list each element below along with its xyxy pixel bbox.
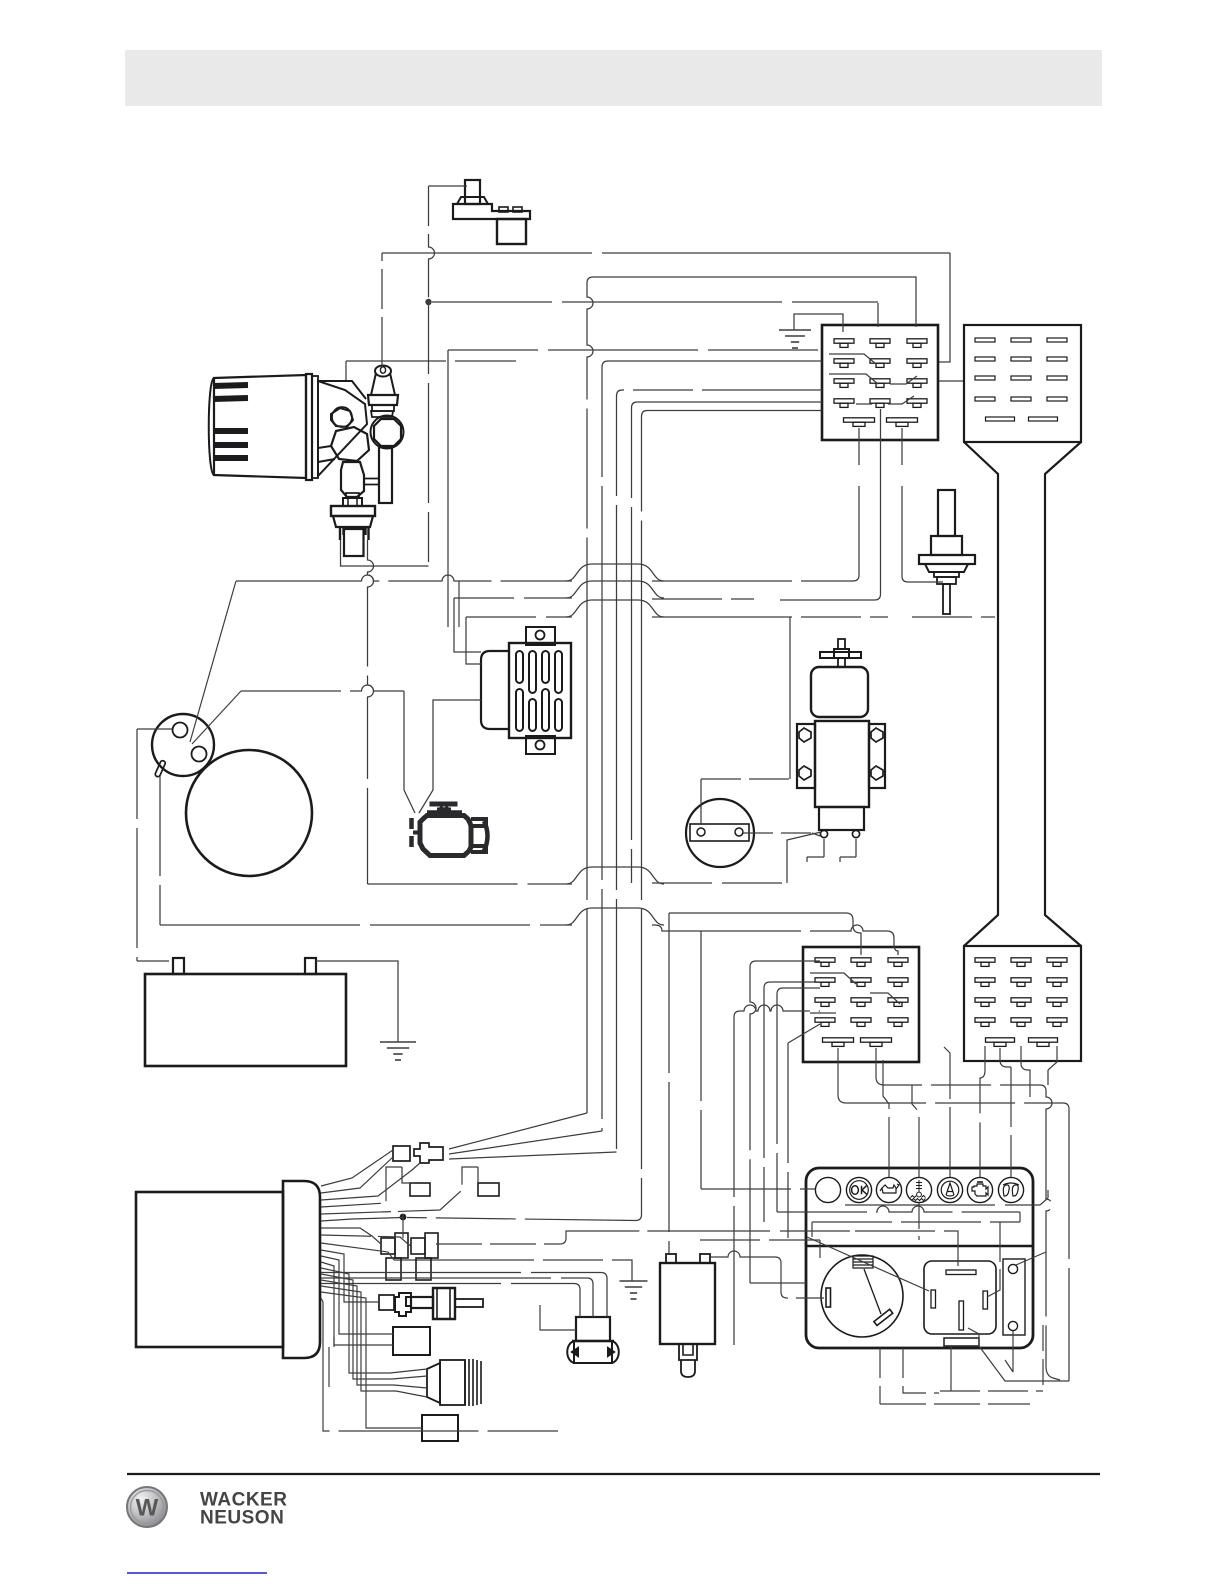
wire <box>601 367 603 560</box>
wire hour meter pin2 to solenoid <box>743 832 812 834</box>
wire <box>811 1222 813 1237</box>
wire bus y580 <box>190 581 236 742</box>
wire <box>601 560 603 1131</box>
wire <box>447 350 449 627</box>
wire <box>566 564 664 581</box>
battery <box>145 958 346 1066</box>
svg-text:W: W <box>136 1495 159 1522</box>
wire <box>783 987 820 989</box>
wire <box>734 1011 740 1017</box>
wire <box>540 1305 576 1330</box>
wire <box>652 580 853 582</box>
oil pressure switch B1 <box>453 180 530 244</box>
panel divider <box>807 1245 1032 1248</box>
wire <box>1046 1366 1060 1380</box>
wire bundle mid <box>586 560 588 1113</box>
wire <box>887 931 898 955</box>
wire block row4 col2 down <box>780 409 881 600</box>
wire filter vent to relay block <box>381 253 383 367</box>
wire <box>940 1390 1043 1392</box>
wire <box>740 1005 820 1011</box>
wire <box>776 994 778 1212</box>
wire <box>566 581 664 598</box>
harness lower wires <box>321 1250 558 1431</box>
wire <box>345 361 347 380</box>
wire <box>750 961 756 967</box>
wire <box>980 1046 985 1177</box>
wire bundle line 3 top <box>617 390 823 396</box>
wire <box>1046 1091 1052 1366</box>
wire <box>1042 1325 1044 1391</box>
harness ribbon cable <box>964 442 998 946</box>
wire y350 <box>448 349 820 351</box>
wire <box>987 1222 1000 1297</box>
wire <box>449 1113 587 1149</box>
wire <box>560 1231 700 1244</box>
fuse F2 <box>462 1167 499 1196</box>
wire <box>701 1188 815 1190</box>
key switch <box>821 1255 903 1337</box>
wire y691 alternator sense <box>192 691 241 744</box>
connector pair B <box>411 1233 438 1280</box>
wire <box>770 981 820 983</box>
connector block X2 <box>803 947 919 1062</box>
wire <box>454 597 572 599</box>
wire <box>616 560 618 1152</box>
harness connector X1 <box>964 325 1081 442</box>
wire bundle line 2 top <box>602 361 822 367</box>
wire <box>641 560 643 1215</box>
panel fuse holder <box>1003 1259 1025 1335</box>
filter vent screw <box>368 366 398 418</box>
wire <box>701 925 887 931</box>
wire <box>652 882 787 884</box>
wire <box>1048 1046 1057 1070</box>
wire <box>652 925 701 931</box>
wire <box>763 988 765 1222</box>
wire <box>652 598 754 600</box>
wire <box>1040 1190 1048 1205</box>
wire <box>777 1206 1020 1212</box>
wire bus y598 <box>454 598 481 652</box>
wire <box>1000 1048 1011 1067</box>
wire <box>631 408 633 560</box>
block to panel wires <box>756 960 820 962</box>
wire <box>587 1278 593 1317</box>
harness fan wires <box>321 1150 462 1260</box>
wire junction down to filter sensor <box>428 304 430 566</box>
wire <box>631 560 633 883</box>
wire bus y925 alternator <box>160 924 572 926</box>
small box B2 <box>422 1415 458 1441</box>
wire hour meter pin1 <box>700 779 702 825</box>
wire <box>616 396 618 560</box>
wire <box>1045 442 1081 946</box>
wire <box>968 1328 979 1346</box>
svg-text:NEUSON: NEUSON <box>200 1508 284 1529</box>
wire <box>1005 1331 1013 1372</box>
relay interface block K1 <box>822 325 938 440</box>
small box B1 <box>393 1327 430 1355</box>
fuel filter water separator <box>209 374 379 497</box>
footer rule <box>127 1473 1100 1475</box>
wire <box>137 960 169 962</box>
flasher unit <box>660 1254 715 1377</box>
battery ground G2 <box>316 961 416 1060</box>
inline connector pair <box>393 1143 443 1163</box>
wire <box>700 1230 855 1232</box>
wire <box>764 982 770 988</box>
harness connector X3 <box>964 946 1081 1061</box>
ground G1 <box>779 314 843 348</box>
wire y361 left <box>346 360 516 362</box>
alternator <box>152 714 312 876</box>
wire <box>241 685 404 691</box>
wire bundle line 5 top <box>642 411 823 417</box>
wire <box>902 428 943 582</box>
fuel shutoff solenoid <box>797 639 885 838</box>
wire <box>787 1043 789 1238</box>
wire <box>587 283 593 560</box>
fuse F1 <box>386 1167 430 1196</box>
wire <box>788 1024 820 1043</box>
wire alternator B+ down <box>159 776 161 925</box>
wire relay wide pins down <box>853 428 859 581</box>
wire <box>950 1346 952 1391</box>
wire <box>1021 1046 1030 1097</box>
wire <box>136 729 138 961</box>
filter water sensor <box>331 493 375 556</box>
Wacker Neuson logo <box>127 1487 167 1527</box>
wire <box>341 540 429 566</box>
wire <box>979 1346 1069 1381</box>
wire <box>812 833 820 836</box>
wire regulator to engine 2 <box>419 700 481 813</box>
wire <box>449 1131 602 1154</box>
main harness triple line <box>321 1272 601 1274</box>
wire <box>1016 1252 1046 1265</box>
wire bus y617 <box>466 617 481 664</box>
wire <box>449 1152 617 1159</box>
filter drain valve <box>371 416 404 504</box>
wire <box>566 867 664 884</box>
buzzer <box>567 1317 619 1363</box>
wire <box>425 299 431 305</box>
wire alternator to battery <box>137 728 172 730</box>
junction dot <box>400 1214 407 1221</box>
wire <box>944 1047 950 1177</box>
wire bundle line 1 top <box>587 277 916 327</box>
wire bus y884 <box>368 883 573 885</box>
wire <box>701 778 790 780</box>
wire <box>812 1221 1020 1223</box>
wire <box>200 1490 287 1529</box>
wire oil switch to junction <box>429 185 468 187</box>
wire <box>1010 1067 1012 1177</box>
wire <box>879 1348 881 1404</box>
wire <box>1019 1212 1021 1222</box>
wire <box>404 691 415 813</box>
wire <box>880 1403 1030 1405</box>
long link to panel <box>402 1214 404 1238</box>
wire <box>574 1284 580 1318</box>
engine ground symbol <box>412 804 488 856</box>
panel relay <box>924 1261 996 1346</box>
instrument panel <box>806 1168 1033 1348</box>
fuel check valve <box>919 490 975 614</box>
voltage regulator <box>481 627 571 754</box>
wire <box>918 1203 920 1240</box>
temperature sender <box>379 1288 483 1319</box>
wire junction to block pin 2 <box>432 301 878 303</box>
wire <box>1047 1070 1049 1085</box>
wire <box>668 913 670 1254</box>
ground G3 <box>394 1260 648 1299</box>
wire <box>236 575 572 581</box>
wire <box>845 1204 1040 1206</box>
indicator lamps <box>815 1177 1023 1202</box>
wire <box>789 617 791 779</box>
wire <box>601 1273 607 1318</box>
wire lamp1 feed <box>700 931 702 1189</box>
wire <box>883 1060 889 1177</box>
wire <box>566 600 664 617</box>
wire <box>840 839 856 862</box>
hour meter <box>686 799 754 867</box>
wire <box>912 616 995 618</box>
wire <box>566 908 664 925</box>
wire <box>382 252 950 254</box>
wire <box>407 1215 642 1221</box>
flasher wires <box>711 1251 824 1298</box>
wire <box>429 186 435 301</box>
wire <box>321 1277 587 1279</box>
wire <box>733 1017 735 1345</box>
wire <box>838 1048 1069 1109</box>
wire <box>819 1240 821 1258</box>
wire solenoid terminals <box>807 839 824 862</box>
wire <box>939 253 950 362</box>
wire <box>750 1282 806 1284</box>
wire flasher to block pin <box>669 913 861 955</box>
connector pair A <box>381 1233 408 1280</box>
wire block to harness <box>939 380 963 382</box>
wire <box>436 1243 560 1245</box>
wire regulator top tab <box>458 581 460 627</box>
wire <box>652 616 888 618</box>
wire <box>321 1283 574 1285</box>
wire <box>1068 1109 1070 1381</box>
footer link line <box>127 1572 267 1574</box>
below panel wires <box>903 1348 939 1393</box>
wire <box>876 1048 1046 1091</box>
wire <box>807 1237 929 1291</box>
wire <box>777 988 783 994</box>
wire <box>466 616 572 618</box>
wire <box>912 1085 919 1177</box>
wire <box>368 540 374 884</box>
page header bar <box>125 50 1102 106</box>
wire <box>787 832 821 883</box>
wire bundle line 4 top <box>632 402 823 408</box>
wire <box>641 417 643 561</box>
round connector <box>427 1359 481 1406</box>
wire <box>877 303 879 327</box>
engine harness boot <box>136 1181 320 1358</box>
wire <box>750 967 756 1283</box>
wire <box>855 1231 958 1266</box>
wire <box>700 1239 820 1241</box>
